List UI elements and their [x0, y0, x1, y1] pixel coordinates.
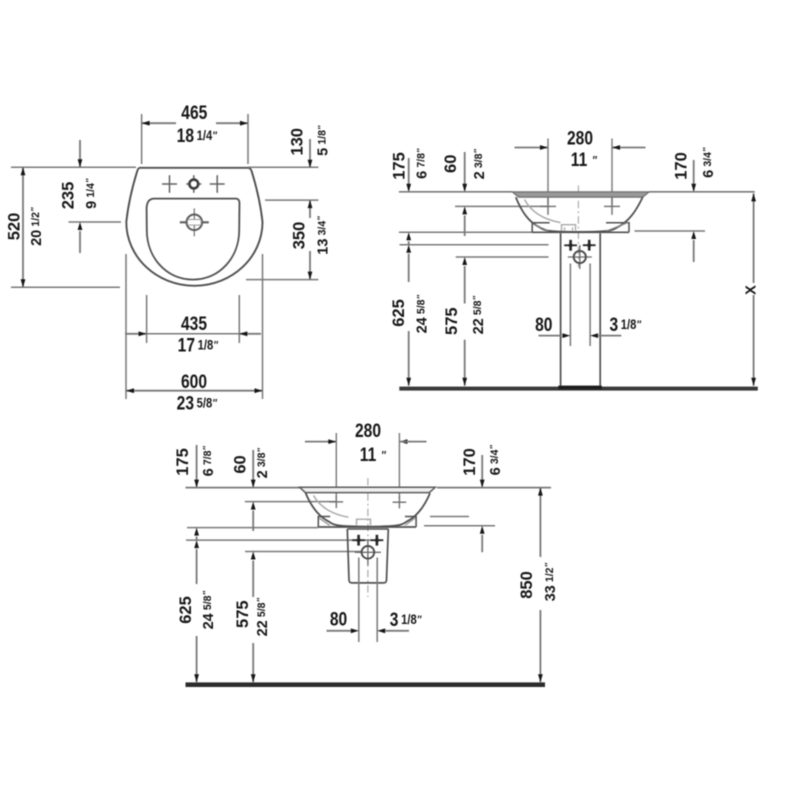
svg-text:600: 600 [181, 371, 207, 393]
svg-text:171/8″: 171/8″ [178, 334, 219, 356]
svg-text:X: X [743, 285, 759, 295]
svg-text:575: 575 [233, 600, 252, 627]
svg-text:520: 520 [4, 213, 23, 240]
svg-text:235/8″: 235/8″ [177, 392, 218, 414]
svg-text:625: 625 [176, 596, 195, 623]
svg-text:575: 575 [442, 307, 461, 334]
svg-text:80: 80 [535, 314, 552, 336]
svg-text:175: 175 [173, 448, 192, 475]
svg-text:60: 60 [441, 155, 460, 173]
svg-text:280: 280 [567, 127, 593, 149]
svg-text:170: 170 [460, 448, 479, 475]
svg-text:350: 350 [289, 222, 308, 249]
svg-text:625: 625 [389, 299, 408, 326]
svg-text:850: 850 [517, 571, 536, 598]
svg-text:235: 235 [58, 182, 77, 209]
svg-text:175: 175 [389, 152, 408, 179]
svg-text:170: 170 [671, 152, 690, 179]
svg-text:80: 80 [330, 608, 347, 630]
svg-text:465: 465 [181, 102, 207, 124]
svg-text:435: 435 [181, 313, 207, 335]
svg-text:181/4″: 181/4″ [177, 125, 218, 147]
svg-text:280: 280 [355, 420, 381, 442]
svg-text:60: 60 [230, 455, 249, 473]
svg-text:130: 130 [287, 128, 306, 155]
